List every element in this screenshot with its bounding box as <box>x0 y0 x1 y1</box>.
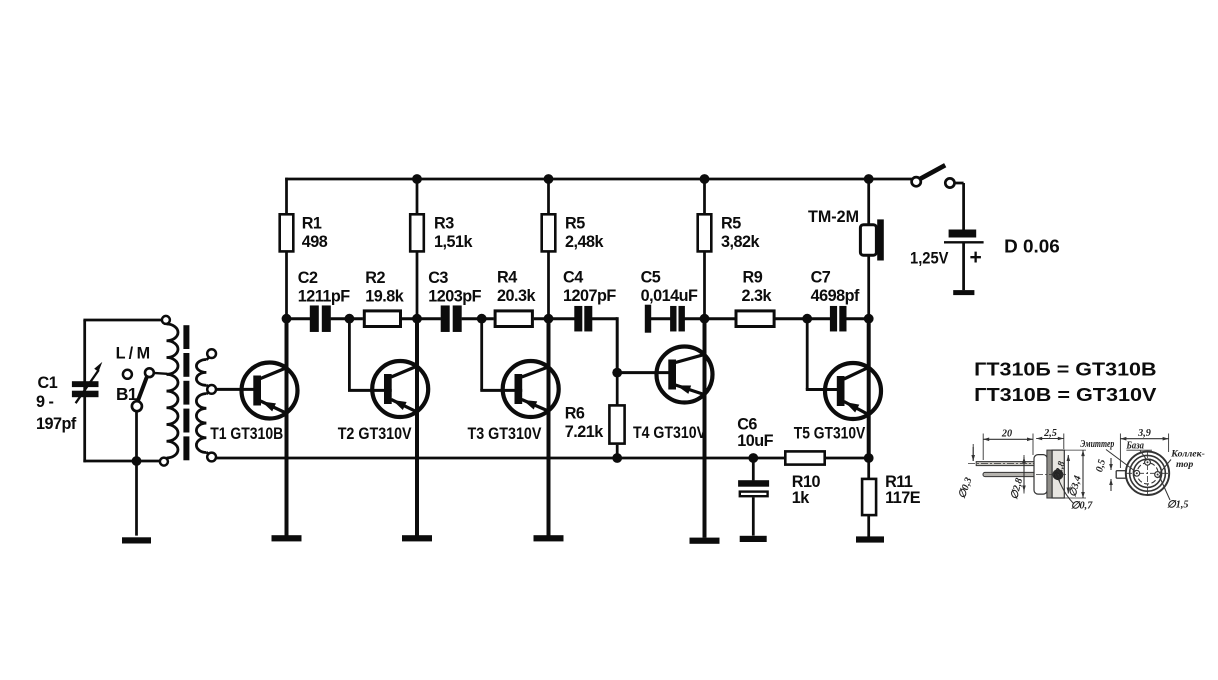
svg-text:R3: R3 <box>434 215 454 233</box>
svg-text:1,25V: 1,25V <box>910 249 949 267</box>
svg-text:ГТ310Б = GT310B: ГТ310Б = GT310B <box>974 359 1156 380</box>
svg-text:498: 498 <box>302 233 328 251</box>
svg-text:C2: C2 <box>298 269 318 287</box>
svg-text:R5: R5 <box>565 215 585 233</box>
svg-text:тор: тор <box>1176 459 1193 470</box>
svg-text:117E: 117E <box>885 489 921 507</box>
svg-text:4698pf: 4698pf <box>811 287 860 305</box>
svg-text:T2 GT310V: T2 GT310V <box>338 425 412 443</box>
svg-text:20: 20 <box>1001 429 1012 440</box>
svg-text:∅0,7: ∅0,7 <box>1071 501 1094 512</box>
svg-text:197pf: 197pf <box>36 415 77 433</box>
svg-text:C3: C3 <box>428 269 448 287</box>
svg-text:10uF: 10uF <box>737 432 773 450</box>
svg-text:9 -: 9 - <box>36 393 54 411</box>
svg-text:∅1,5: ∅1,5 <box>1167 500 1189 511</box>
svg-text:C1: C1 <box>38 374 58 392</box>
svg-text:1k: 1k <box>792 489 811 507</box>
svg-text:T5 GT310V: T5 GT310V <box>794 424 866 442</box>
svg-text:T3 GT310V: T3 GT310V <box>468 425 542 443</box>
svg-text:0,014uF: 0,014uF <box>641 287 698 305</box>
svg-text:B1: B1 <box>116 384 138 404</box>
svg-text:T4 GT310V: T4 GT310V <box>633 424 706 442</box>
svg-text:Эмиттер: Эмиттер <box>1080 439 1114 450</box>
svg-text:R2: R2 <box>365 269 385 287</box>
svg-text:C6: C6 <box>737 415 757 433</box>
svg-text:C7: C7 <box>811 268 831 286</box>
svg-text:1,51k: 1,51k <box>434 233 474 251</box>
svg-text:3,9: 3,9 <box>1137 428 1151 439</box>
svg-text:3,82k: 3,82k <box>721 233 761 251</box>
svg-text:+: + <box>970 246 982 269</box>
svg-text:R1: R1 <box>302 215 322 233</box>
svg-text:1211pF: 1211pF <box>298 287 351 305</box>
svg-text:2,5: 2,5 <box>1043 428 1057 439</box>
svg-text:1203pF: 1203pF <box>428 287 481 305</box>
svg-text:D 0.06: D 0.06 <box>1004 237 1060 257</box>
svg-text:C5: C5 <box>641 268 661 286</box>
svg-text:20.3k: 20.3k <box>497 287 537 305</box>
svg-text:1207pF: 1207pF <box>563 287 616 305</box>
svg-text:R4: R4 <box>497 268 517 286</box>
svg-text:L / M: L / M <box>116 345 150 363</box>
svg-text:7.21k: 7.21k <box>565 423 605 441</box>
svg-text:R9: R9 <box>743 268 763 286</box>
svg-text:ГТ310В = GT310V: ГТ310В = GT310V <box>974 384 1157 405</box>
svg-text:T1 GT310B: T1 GT310B <box>210 425 283 443</box>
svg-text:TM-2M: TM-2M <box>808 208 859 226</box>
svg-text:2,48k: 2,48k <box>565 233 605 251</box>
svg-text:C4: C4 <box>563 268 583 286</box>
svg-text:2.3k: 2.3k <box>742 287 773 305</box>
svg-text:R5: R5 <box>721 215 741 233</box>
svg-text:19.8k: 19.8k <box>365 287 405 305</box>
svg-text:R6: R6 <box>565 404 585 422</box>
